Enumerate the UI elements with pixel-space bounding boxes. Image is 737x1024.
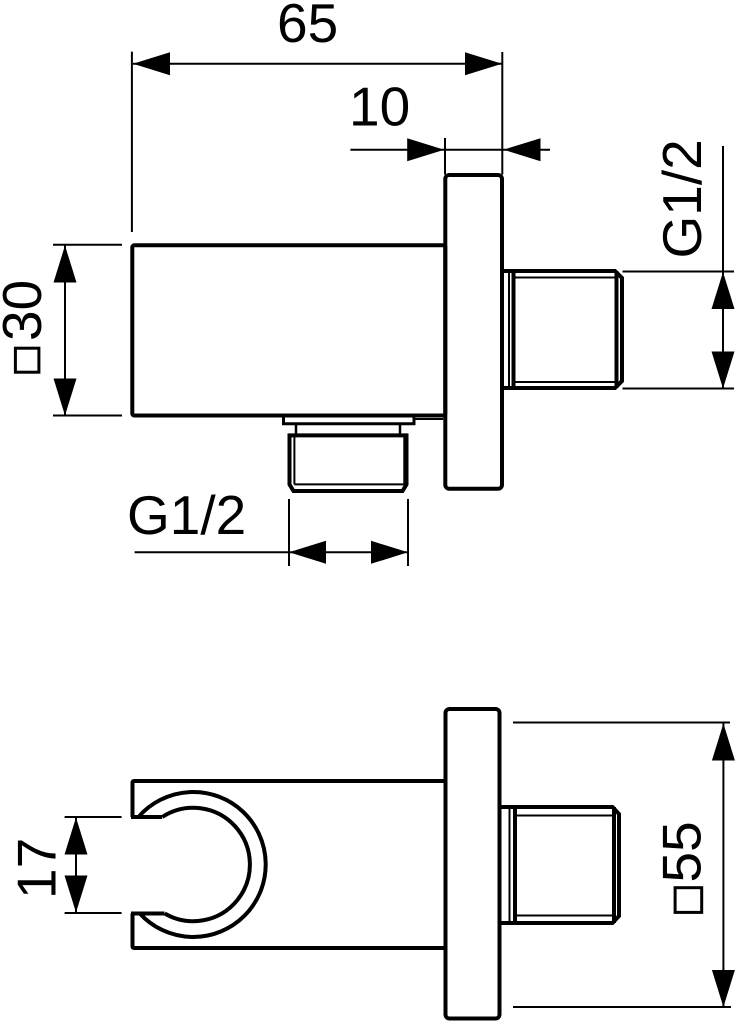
svg-text:G1/2: G1/2	[651, 139, 713, 258]
svg-text:65: 65	[277, 0, 338, 54]
svg-text:30: 30	[0, 280, 53, 341]
svg-text:10: 10	[349, 76, 410, 138]
svg-text:17: 17	[6, 838, 68, 899]
svg-text:G1/2: G1/2	[127, 484, 246, 546]
svg-text:55: 55	[651, 821, 713, 882]
